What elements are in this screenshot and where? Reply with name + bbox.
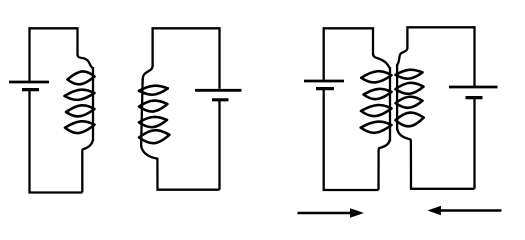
inductor L1 turn 2 bbox=[65, 90, 95, 100]
inductor L1 turn 3 bbox=[66, 105, 95, 116]
inductor L3 turn 1 bbox=[361, 71, 391, 82]
wire: circuit 4 top (inductor L4 up over to battery V4) bbox=[407, 27, 474, 86]
wire: L1 bottom lead swoop + down to bottom wire bbox=[82, 140, 93, 193]
inductor L2 turn 1 bbox=[139, 86, 168, 95]
battery V2 long plate (+) bbox=[195, 89, 242, 92]
inductor L2 turn 4 bbox=[139, 130, 169, 143]
wire: L3 top lead-in swoop bbox=[373, 54, 390, 69]
inductor L3 core line bbox=[389, 67, 391, 141]
battery V3 short plate (-) bbox=[316, 87, 334, 90]
battery V1 long plate (+) bbox=[9, 81, 49, 84]
wire: circuit 3 left+top (battery V3 + terminal up to inductor L3) bbox=[324, 28, 373, 79]
wire: L4 top lead-in jog + swoop bbox=[397, 48, 407, 65]
battery V4 long plate (+) bbox=[449, 86, 498, 89]
inductor L1 turn 4 bbox=[65, 121, 95, 133]
inductor L2 turn 2 bbox=[139, 101, 167, 112]
wire: L2 top lead-in swoop bbox=[143, 66, 153, 81]
inductor L4 turn 4 bbox=[396, 113, 424, 127]
battery V2 short plate (-) bbox=[212, 98, 229, 101]
wire: circuit 1 left below V1 + bottom wire bbox=[30, 91, 83, 193]
inductor L2 turn 3 bbox=[139, 117, 167, 127]
arrow: circuit 3 pushed right bbox=[298, 212, 353, 215]
wire: L2 bottom lead swoop + bottom wire to V2 bbox=[141, 146, 219, 190]
wire: L3 bottom lead swoop + down to bottom wire bbox=[379, 140, 391, 191]
inductor L1 turn 1 bbox=[68, 71, 95, 84]
inductor L4 turn 2 bbox=[396, 83, 424, 94]
wire: circuit 2 right below battery V2 bbox=[218, 100, 220, 189]
inductor L2 core line bbox=[141, 78, 143, 146]
arrow: circuit 4 pushed left bbox=[440, 209, 502, 212]
wire: circuit 4 right below battery V4 bbox=[473, 98, 475, 189]
inductor L4 turn 3 bbox=[396, 97, 423, 108]
wire: circuit 3 left below V3 + bottom wire bbox=[324, 90, 379, 190]
wire: circuit 2 top (inductor L2 up over to battery V2) bbox=[153, 28, 220, 88]
inductor L3 turn 2 bbox=[364, 89, 392, 99]
battery V3 long plate (+) bbox=[304, 80, 344, 83]
wire: L1 top lead-in swoop bbox=[78, 55, 93, 69]
inductor L4 turn 1 bbox=[396, 70, 423, 79]
battery V1 short plate (-) bbox=[22, 88, 39, 91]
inductor L3 turn 4 bbox=[361, 122, 392, 133]
battery V4 short plate (-) bbox=[466, 96, 483, 99]
wire: L4 bottom lead swoop + bottom wire to V4 bbox=[397, 129, 474, 189]
wire: circuit 1 left+top (battery V1 + terminal up to inductor L1) bbox=[30, 28, 78, 80]
inductor L3 turn 3 bbox=[361, 105, 392, 116]
inductor L4 core line bbox=[396, 64, 398, 130]
inductor L1 core line bbox=[92, 67, 94, 141]
